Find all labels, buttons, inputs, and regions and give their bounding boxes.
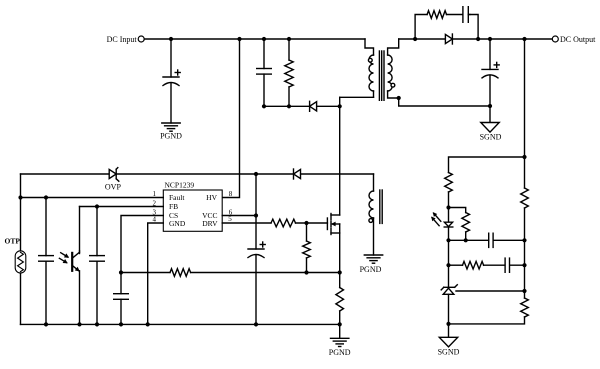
wire vcc cap bottom — [255, 256, 257, 325]
wire led anode — [448, 192, 450, 222]
U1 pin label VCC — [202, 211, 217, 220]
U1 pin number 4 — [153, 216, 157, 224]
wire otp bottom — [20, 273, 22, 324]
node lower rc right — [522, 263, 526, 267]
svg-text:OTP: OTP — [5, 236, 21, 245]
node rail c6 — [95, 322, 99, 326]
U1 pin number 2 — [153, 199, 157, 207]
wire sense to rail — [339, 311, 341, 338]
node rail vcc-cap — [254, 322, 258, 326]
transformer T1 secondary phase dot — [391, 83, 395, 87]
resistor R10 comp series — [463, 261, 484, 269]
node comp right — [522, 238, 526, 242]
svg-text:GND: GND — [169, 219, 186, 228]
node snubber res bottom — [287, 104, 291, 108]
node snubber cap bottom — [262, 104, 266, 108]
resistor R2 rc snubber — [427, 11, 446, 19]
wire cap C5 branch — [45, 198, 47, 325]
node output cap top — [488, 37, 492, 41]
diode D1 clamp — [310, 101, 317, 111]
U1 pin label FB — [169, 202, 178, 211]
ground SGND output — [480, 123, 502, 142]
transformer T1 aux winding — [369, 174, 374, 255]
wire snubber res bottom lead — [288, 87, 290, 106]
node lower rc left — [446, 263, 450, 267]
wire fb line — [80, 207, 164, 252]
node input-cap junction — [169, 37, 173, 41]
wire tl431 ref — [456, 290, 525, 292]
wire snubber res top lead — [288, 39, 290, 60]
U1 pin number 5 — [228, 215, 232, 223]
resistor R3 cs filter — [170, 269, 191, 277]
node output feedback tap — [522, 37, 526, 41]
node rc-snubber right — [476, 37, 480, 41]
node snubber res top — [287, 37, 291, 41]
capacitor C1 input bulk — [163, 70, 180, 86]
wire left vertical — [20, 174, 22, 251]
capacitor C3 rc snubber — [463, 7, 468, 23]
node ref junction — [522, 289, 526, 293]
wire fb right line upper — [524, 39, 526, 188]
transistor Q1 MOSFET — [327, 214, 339, 235]
ground PGND power — [329, 338, 351, 357]
wire snubber bottom — [264, 105, 340, 107]
wire cs line — [121, 216, 163, 273]
wire fb right line mid — [524, 208, 526, 298]
transformer T1 core — [379, 51, 384, 100]
diode D2 output rectifier — [445, 34, 452, 44]
node rail opto — [77, 322, 81, 326]
svg-text:SGND: SGND — [480, 133, 502, 142]
node fb bottom junction — [446, 322, 450, 326]
capacitor C10 comp series — [505, 258, 509, 272]
node fault-left — [18, 195, 22, 199]
svg-text:SGND: SGND — [438, 348, 460, 357]
wire led cathode — [448, 227, 450, 265]
op-amp U1 NCP1239 body — [163, 181, 222, 232]
wire led parallel branch — [449, 208, 466, 213]
node gate pulldown bottom — [304, 270, 308, 274]
ground PGND aux — [360, 255, 383, 274]
svg-text:OVP: OVP — [105, 183, 122, 192]
wire vcc drop — [255, 174, 257, 249]
node fb tie junction — [522, 155, 526, 159]
resistor R11 divider lower — [521, 298, 529, 317]
wire rc snubber loop — [415, 15, 478, 40]
thermistor OTP — [5, 236, 26, 273]
capacitor C2 clamp — [257, 69, 272, 75]
LED D5 optocoupler — [432, 213, 453, 227]
node HV drop junction — [237, 37, 241, 41]
wire snubber cap — [263, 39, 265, 106]
U1 pin label CS — [169, 211, 178, 220]
wire primary bottom link — [340, 96, 374, 98]
svg-text:DC Output: DC Output — [560, 35, 596, 44]
transformer T1 secondary winding — [388, 39, 490, 106]
node snubber cap top — [262, 37, 266, 41]
capacitor C6 fb filter — [90, 256, 105, 262]
node parallel branch bottom — [464, 238, 468, 242]
resistor R8 led parallel — [462, 213, 470, 233]
diode D4 VCC rectifier — [294, 169, 301, 179]
wire fault line — [21, 197, 164, 199]
wire tl431 cathode — [448, 265, 450, 287]
svg-text:PGND: PGND — [160, 131, 182, 140]
node fault-cap — [44, 195, 48, 199]
wire tl431 anode — [448, 294, 450, 337]
resistor R6 current sense — [336, 288, 344, 312]
svg-text:Fault: Fault — [169, 193, 185, 202]
node VCC line junction — [254, 172, 258, 176]
svg-text:HV: HV — [206, 193, 217, 202]
wire led parallel bottom — [465, 232, 467, 240]
wire gate pulldown top — [306, 223, 308, 241]
wire lower rc row — [449, 264, 525, 266]
wire drv pin — [222, 222, 327, 224]
node primary bottom junction — [338, 104, 342, 108]
wire gnd line — [148, 223, 164, 324]
wire output cap bottom lead — [489, 76, 491, 123]
wire DC input rail — [144, 38, 365, 40]
wire cap C6 branch — [96, 207, 98, 325]
transformer T1 primary winding — [365, 39, 374, 97]
node vcc pin junction — [254, 213, 258, 217]
wire ovp-vcc line — [21, 173, 374, 175]
transformer T1 aux core — [380, 190, 382, 223]
wire cs row — [121, 272, 340, 274]
resistor R4 gate — [271, 219, 296, 227]
capacitor C5 fault filter — [39, 256, 54, 262]
node rail c5 — [44, 322, 48, 326]
svg-text:5: 5 — [228, 215, 232, 223]
ground SGND feedback — [438, 337, 460, 356]
capacitor C4 output bulk — [482, 62, 499, 78]
optocoupler U2 phototransistor — [59, 251, 79, 324]
node led bottom junction — [446, 238, 450, 242]
wire vcc pin — [222, 215, 256, 217]
wire source — [339, 233, 341, 288]
resistor R9 divider mid — [521, 188, 529, 208]
node led top junction — [446, 205, 450, 209]
DC Input terminal — [107, 35, 145, 44]
node source-cs junction — [338, 270, 342, 274]
node gate junction — [304, 221, 308, 225]
node rc-snubber left — [413, 37, 417, 41]
node rail gnd-pin — [146, 322, 150, 326]
U1 pin label Fault — [169, 193, 185, 202]
svg-text:8: 8 — [229, 190, 233, 198]
node fb-cap — [95, 204, 99, 208]
wire input cap top — [170, 39, 172, 77]
DC Output terminal — [552, 35, 596, 44]
wire output cap top lead — [489, 39, 491, 69]
wire output rail — [399, 38, 553, 40]
wire fb top tie — [449, 157, 525, 173]
resistor R7 divider upper — [445, 173, 453, 193]
U1 pin label GND — [169, 219, 186, 228]
diode D3 OVP zener — [105, 168, 122, 192]
transformer T1 aux phase dot — [369, 219, 373, 223]
U1 pin number 8 — [229, 190, 233, 198]
wire input cap bottom — [170, 84, 172, 124]
wire bottom rail — [21, 323, 340, 325]
resistor R5 gate pulldown — [303, 241, 311, 258]
U1 pin label HV — [206, 193, 217, 202]
wire drain riser — [339, 97, 341, 215]
svg-text:PGND: PGND — [329, 348, 351, 357]
wire cs cap branch — [120, 273, 122, 325]
svg-text:DC Input: DC Input — [107, 35, 138, 44]
wire HV line — [222, 39, 239, 198]
svg-text:DRV: DRV — [202, 219, 218, 228]
wire comp row — [449, 239, 525, 241]
capacitor C7 cs filter — [114, 294, 129, 300]
node secondary bottom corner — [397, 96, 401, 100]
capacitor C9 comp — [489, 233, 493, 247]
node cs-corner — [119, 270, 123, 274]
node rail c7 — [119, 322, 123, 326]
regulator U3 TL431 — [441, 285, 457, 295]
svg-text:PGND: PGND — [360, 265, 382, 274]
transformer T1 primary phase dot — [368, 58, 372, 62]
U1 pin number 3 — [153, 209, 157, 217]
U1 pin number 6 — [229, 209, 233, 217]
node output cap bottom — [488, 104, 492, 108]
U1 pin label DRV — [202, 219, 218, 228]
svg-text:NCP1239: NCP1239 — [165, 181, 195, 190]
capacitor C8 vcc — [248, 242, 265, 258]
node sense-rail junction — [338, 322, 342, 326]
svg-text:FB: FB — [169, 202, 178, 211]
ground PGND input — [160, 123, 182, 140]
wire gate pulldown bottom — [306, 258, 308, 273]
resistor R1 clamp — [285, 60, 293, 87]
U1 pin number 1 — [153, 190, 157, 198]
wire fb bottom tie — [449, 317, 525, 324]
